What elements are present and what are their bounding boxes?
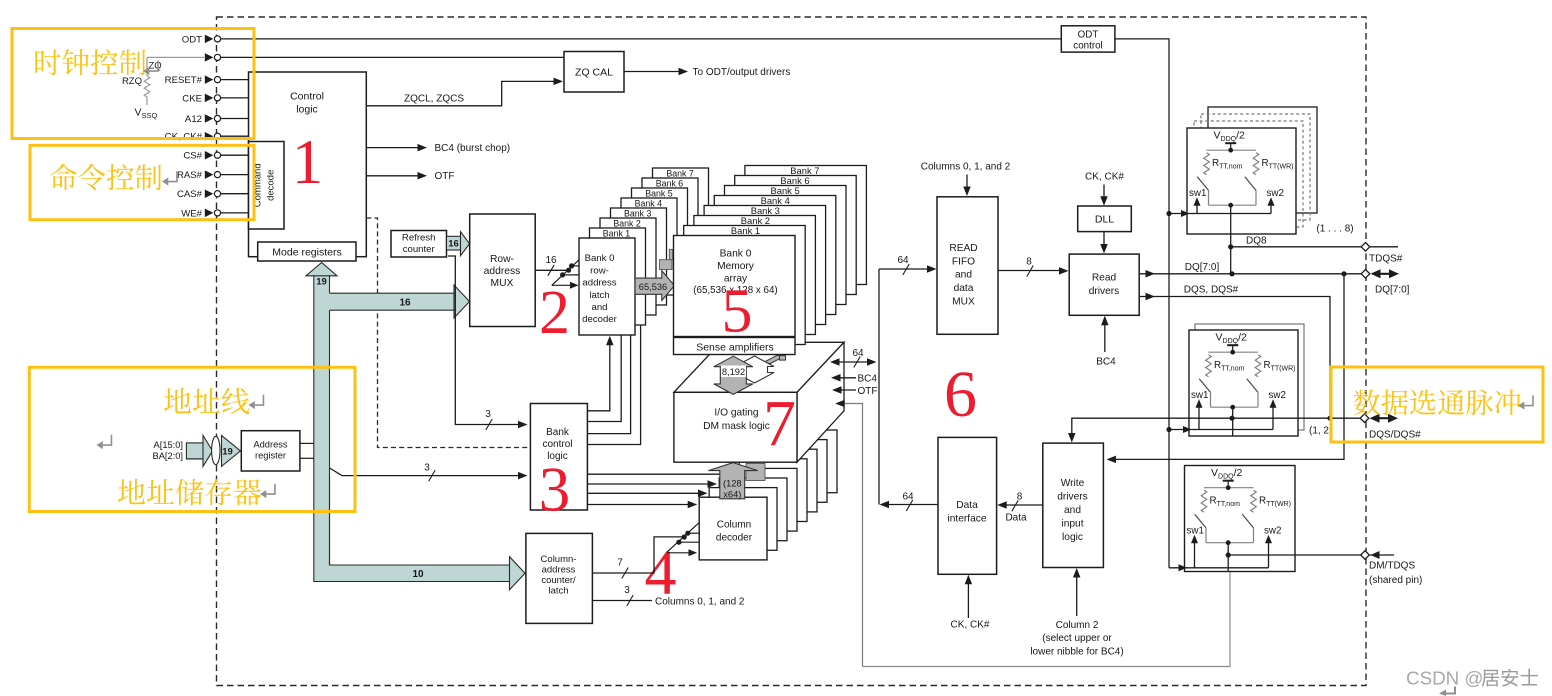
- pin DQS/DQS# (bidirectional): [1360, 414, 1421, 441]
- svg-text:ZQ CAL: ZQ CAL: [575, 67, 613, 79]
- svg-text:64: 64: [852, 348, 864, 359]
- svg-text:RESET#: RESET#: [165, 75, 203, 86]
- svg-text:WE#: WE#: [181, 208, 202, 219]
- svg-text:Bank: Bank: [546, 427, 570, 438]
- svg-text:8: 8: [1026, 257, 1032, 268]
- svg-text:Data: Data: [956, 500, 978, 511]
- svg-text:Bank 0: Bank 0: [585, 253, 615, 264]
- termination network DQS stack (ghost): [1195, 324, 1329, 437]
- svg-text:Write: Write: [1061, 478, 1085, 489]
- svg-text:Mode registers: Mode registers: [272, 247, 341, 259]
- input pin WE#: [181, 208, 248, 219]
- svg-text:counter/: counter/: [541, 575, 576, 586]
- svg-text:CK, CK#: CK, CK#: [951, 620, 990, 631]
- svg-text:sw2: sw2: [1269, 390, 1286, 401]
- svg-text:CSDN @: CSDN @: [1406, 668, 1484, 689]
- svg-text:10: 10: [412, 569, 424, 580]
- address bus (teal): register to vertical bus: [300, 443, 314, 458]
- ZQ CAL block: [564, 52, 624, 93]
- svg-text:16: 16: [448, 239, 459, 250]
- svg-text:ODT: ODT: [1078, 29, 1099, 40]
- svg-text:READ: READ: [949, 243, 977, 254]
- svg-text:3: 3: [424, 463, 430, 474]
- label 7 (I/O gating, red): [763, 387, 796, 460]
- wire ZQCL, ZQCS (control logic to ZQ CAL): [366, 78, 563, 106]
- wire 64 (I/O gating to read/write data bus): [830, 348, 877, 368]
- svg-text:DQS/DQS#: DQS/DQS#: [1369, 430, 1421, 441]
- column-address counter/latch block: [526, 533, 593, 623]
- column decoder stack (banks 1-7): [709, 430, 837, 550]
- svg-text:BC4 (burst chop): BC4 (burst chop): [435, 143, 511, 154]
- wire DM/TDQS pin line: [1230, 554, 1362, 556]
- svg-text:FIFO: FIFO: [952, 256, 975, 267]
- wire DQ8 center tap: [1228, 234, 1233, 274]
- wire Columns 0, 1, and 2 into READ FIFO: [921, 162, 1011, 197]
- svg-text:sw2: sw2: [1264, 526, 1281, 537]
- svg-text:6: 6: [944, 358, 977, 431]
- control logic block U1: [249, 72, 367, 257]
- svg-text:5: 5: [722, 278, 753, 346]
- svg-text:(shared pin): (shared pin): [1369, 575, 1422, 586]
- svg-text:decoder: decoder: [716, 532, 753, 543]
- svg-text:sw1: sw1: [1189, 188, 1206, 199]
- termination network RTT cell (DM/TDQS): [1169, 466, 1295, 572]
- svg-text:ODT: ODT: [182, 34, 202, 45]
- wires bank select (bank control logic to column decoder stack): [587, 474, 719, 508]
- annotation box address (yellow): [29, 367, 355, 511]
- data interface block: [938, 437, 997, 574]
- write drivers and input logic block: [1043, 443, 1104, 567]
- vertical data bus 64: [878, 269, 880, 505]
- svg-text:BC4: BC4: [1096, 357, 1116, 368]
- wire DM mask (from DM/TDQS pin) into I/O gating: [835, 400, 862, 667]
- column address bus 10 (teal) to column-address counter: [314, 468, 525, 590]
- svg-text:counter: counter: [403, 244, 436, 255]
- svg-text:2: 2: [539, 279, 570, 347]
- svg-text:8,192: 8,192: [722, 367, 745, 377]
- wire 8 (READ FIFO to read drivers): [998, 257, 1069, 277]
- svg-text:19: 19: [222, 447, 233, 458]
- I/O gating DM mask logic block (3D): [674, 342, 844, 462]
- svg-text:7: 7: [763, 387, 796, 460]
- svg-text:Row-: Row-: [490, 254, 514, 265]
- wire Column 2 select into write drivers: [1030, 568, 1123, 657]
- read drivers block: [1069, 254, 1139, 315]
- READ FIFO and data MUX block: [937, 197, 998, 334]
- wire column address 7 with fan-out to column decoders: [592, 523, 699, 579]
- address register block: [241, 431, 300, 471]
- svg-text:latch: latch: [548, 585, 568, 596]
- svg-text:65,536: 65,536: [639, 282, 667, 292]
- refresh counter bus 16 (teal): [447, 232, 470, 256]
- pin DM/TDQS (input, shared pin): [1361, 551, 1423, 586]
- svg-text:3: 3: [624, 585, 630, 596]
- wire 64 into READ FIFO: [879, 255, 937, 275]
- svg-text:Column 2: Column 2: [1056, 620, 1099, 631]
- svg-text:16: 16: [399, 298, 411, 309]
- data bus 8,192 (sense amplifiers to I/O gating, gray): [714, 356, 753, 394]
- resistor RZQ to VSSQ (ZQ calibration network): [122, 57, 204, 120]
- svg-text:lower nibble for BC4): lower nibble for BC4): [1030, 646, 1123, 657]
- svg-text:Bank 1: Bank 1: [603, 228, 630, 238]
- svg-text:address: address: [582, 278, 616, 289]
- wire DQ8 to TDQS# pin: [1232, 236, 1398, 247]
- wires bank select (bank control logic to latch stack): [587, 306, 640, 445]
- annotation text 地址线 (address lines): [164, 388, 263, 415]
- input pin RAS#: [177, 170, 249, 181]
- svg-text:3: 3: [485, 409, 491, 420]
- input pin CAS#: [177, 189, 249, 200]
- svg-text:row-: row-: [590, 265, 609, 276]
- svg-text:Column-: Column-: [541, 554, 577, 565]
- svg-text:OTF: OTF: [858, 386, 878, 397]
- svg-text:A[15:0]: A[15:0]: [154, 440, 183, 450]
- svg-text:ZQ: ZQ: [149, 60, 162, 71]
- svg-text:decoder: decoder: [582, 314, 617, 325]
- wire DLL to read drivers: [1100, 232, 1108, 254]
- svg-text:19: 19: [316, 277, 327, 288]
- svg-text:1: 1: [292, 127, 324, 197]
- wire DQS, DQS# (read drivers to DQS pins): [1139, 285, 1332, 421]
- svg-text:x64): x64): [723, 489, 741, 499]
- svg-text:I/O gating: I/O gating: [714, 408, 759, 419]
- svg-text:logic: logic: [296, 104, 318, 116]
- svg-text:ZQCL, ZQCS: ZQCL, ZQCS: [404, 94, 464, 105]
- svg-text:Bank 2: Bank 2: [613, 218, 640, 228]
- svg-text:CS#: CS#: [183, 151, 202, 162]
- svg-text:DQ[7:0]: DQ[7:0]: [1185, 262, 1220, 273]
- svg-text:latch: latch: [589, 290, 609, 301]
- address input bus arrow (teal, 19 bits): [186, 435, 240, 466]
- bank memory array stack (banks 1-7): [684, 165, 867, 345]
- svg-text:address: address: [542, 564, 576, 575]
- svg-text:(1 . . . 8): (1 . . . 8): [1316, 224, 1353, 235]
- wire DQ branch to write drivers: [1107, 274, 1345, 463]
- svg-text:Bank 7: Bank 7: [666, 168, 693, 178]
- label 2 (row-address MUX, red): [539, 279, 570, 347]
- svg-text:Bank 6: Bank 6: [656, 178, 683, 188]
- svg-text:DM/TDQS: DM/TDQS: [1369, 561, 1415, 572]
- svg-text:Bank 3: Bank 3: [624, 208, 651, 218]
- row-address MUX block: [470, 214, 536, 327]
- wire BC4 into read drivers: [1096, 316, 1116, 368]
- svg-text:drivers: drivers: [1057, 491, 1088, 502]
- wire ZQ CAL output to ODT/output drivers: [624, 67, 790, 78]
- svg-text:(1, 2: (1, 2: [1309, 426, 1329, 437]
- label 1 (control logic, red): [292, 127, 324, 197]
- svg-text:logic: logic: [1062, 532, 1083, 543]
- svg-text:Sense amplifiers: Sense amplifiers: [696, 342, 774, 354]
- svg-text:DM mask logic: DM mask logic: [703, 421, 770, 432]
- input pin CK, CK#: [165, 132, 249, 143]
- output OTF: [366, 171, 454, 182]
- svg-text:DQ[7:0]: DQ[7:0]: [1375, 285, 1410, 296]
- svg-text:Columns 0, 1, and 2: Columns 0, 1, and 2: [921, 162, 1011, 173]
- annotation box data strobe (yellow): [1331, 367, 1543, 442]
- ODT control block: [1061, 26, 1115, 52]
- svg-text:Control: Control: [290, 91, 324, 103]
- dashed control path (control logic to bank control logic): [366, 218, 528, 448]
- input pin RESET#: [165, 75, 249, 86]
- row bus 65,536 (latch to memory array, gray): [635, 249, 674, 300]
- bank row-address latch stack (banks 1-7): [590, 168, 709, 325]
- output BC4 (burst chop): [366, 143, 510, 154]
- svg-text:input: input: [1061, 518, 1083, 529]
- wire 3 (row path to bank control logic): [448, 256, 528, 430]
- svg-text:MUX: MUX: [952, 297, 975, 308]
- wire DQS center tap: [1232, 418, 1234, 430]
- column decoder block (bank 0): [699, 497, 767, 560]
- command decode block: [249, 142, 285, 230]
- svg-text:BA[2:0]: BA[2:0]: [153, 451, 184, 461]
- svg-text:Memory: Memory: [717, 261, 755, 272]
- annotation text 数据选通脉冲 (data strobe): [1354, 389, 1533, 415]
- termination network DQ8 stack (dashed ghosts): [1194, 107, 1354, 235]
- svg-text:Bank 0: Bank 0: [720, 249, 752, 260]
- svg-text:RZQ: RZQ: [122, 76, 142, 87]
- wire DQS/DQS# pin line to write drivers input: [1068, 416, 1361, 443]
- svg-text:and: and: [955, 270, 972, 281]
- svg-text:sw1: sw1: [1191, 390, 1208, 401]
- wire ODT control to termination networks: [1115, 39, 1172, 568]
- svg-text:decode: decode: [266, 170, 277, 201]
- input pin CS#: [183, 151, 248, 162]
- column bus 128x64 (column decoder to I/O gating, gray): [708, 463, 765, 500]
- svg-text:DLL: DLL: [1095, 214, 1114, 226]
- DDR3 SDRAM chip boundary (dashed border): [217, 17, 1367, 686]
- annotation box clock control (yellow): [12, 29, 254, 139]
- label 3 (bank control logic, red): [539, 455, 571, 525]
- svg-text:drivers: drivers: [1089, 286, 1120, 297]
- svg-text:and: and: [1064, 505, 1081, 516]
- input pin ODT: [182, 34, 1061, 45]
- annotation text 时钟控制 (clock control): [35, 49, 158, 75]
- wire DQ[7:0] (read drivers to DQ pins): [1139, 262, 1361, 278]
- wire DM center tap: [1226, 552, 1231, 567]
- wire CK, CK# into data interface: [951, 575, 990, 631]
- svg-text:Address: Address: [253, 440, 287, 450]
- svg-text:RAS#: RAS#: [177, 170, 203, 181]
- svg-text:DQS, DQS#: DQS, DQS#: [1184, 285, 1239, 296]
- svg-text:64: 64: [897, 255, 909, 266]
- row address bus 16 (teal) to row-address MUX: [329, 285, 470, 318]
- bank control logic block: [530, 404, 587, 511]
- svg-text:Refresh: Refresh: [402, 233, 436, 244]
- svg-text:control: control: [1073, 40, 1102, 51]
- input pin CKE: [182, 93, 248, 104]
- svg-text:CKE: CKE: [182, 93, 202, 104]
- svg-text:(select upper or: (select upper or: [1042, 633, 1112, 644]
- refresh counter block: [391, 231, 447, 258]
- svg-text:Data: Data: [1005, 513, 1027, 524]
- svg-text:16: 16: [545, 255, 557, 266]
- DLL block: [1078, 206, 1132, 232]
- input pin ZQ (to ZQ CAL): [205, 53, 564, 62]
- svg-text:sw1: sw1: [1187, 526, 1204, 537]
- wire bank address 3 (address register to bank control logic): [330, 463, 528, 482]
- svg-text:Column: Column: [717, 519, 751, 530]
- svg-text:MUX: MUX: [491, 278, 514, 289]
- input pin A12: [185, 114, 249, 125]
- annotation text 命令控制 (command control): [50, 164, 177, 190]
- sense amplifiers block: [674, 338, 796, 355]
- annotation text 地址储存器 (address register): [118, 479, 275, 506]
- svg-text:BC4: BC4: [858, 374, 878, 385]
- svg-text:Read: Read: [1092, 272, 1117, 283]
- bank 0 memory array block: [674, 236, 796, 337]
- svg-text:address: address: [484, 266, 521, 277]
- svg-text:interface: interface: [947, 514, 986, 525]
- svg-text:TDQS#: TDQS#: [1369, 254, 1403, 265]
- wire OTF into I/O gating: [832, 386, 878, 397]
- svg-text:Bank 1: Bank 1: [731, 225, 760, 236]
- pin TDQS#: [1361, 243, 1403, 265]
- svg-text:Columns 0, 1, and 2: Columns 0, 1, and 2: [655, 596, 745, 607]
- svg-text:3: 3: [539, 455, 571, 525]
- svg-text:(128: (128: [723, 478, 742, 488]
- wire DM mask bottom run (gray): [863, 557, 1231, 667]
- annotation return mark (standalone): [97, 435, 112, 449]
- svg-text:DQ8: DQ8: [1246, 236, 1267, 247]
- wire column select 3 (Columns 0, 1, and 2): [592, 585, 745, 607]
- svg-text:control: control: [542, 439, 572, 450]
- wire 8 Data (write drivers to data interface): [997, 492, 1043, 524]
- svg-text:register: register: [255, 451, 286, 461]
- wire 64 from data interface: [880, 492, 939, 512]
- svg-text:Bank 5: Bank 5: [645, 188, 672, 198]
- svg-text:CAS#: CAS#: [177, 189, 203, 200]
- termination network RTT cell (DQS): [1169, 330, 1298, 436]
- wire CK, CK# into DLL: [1085, 172, 1124, 206]
- wire BC4 into I/O gating: [831, 374, 877, 385]
- svg-text:and: and: [591, 302, 607, 313]
- wire row address 16 with bank fan-out: [535, 255, 579, 289]
- annotation box command control (yellow): [30, 145, 254, 219]
- svg-text:data: data: [954, 283, 974, 294]
- data bus 8,192 ghost arrow bank1 (white): [735, 356, 774, 383]
- pin DQ[7:0] (bidirectional): [1361, 269, 1409, 295]
- bank 0 row-address latch and decoder block: [579, 238, 635, 335]
- watermark CSDN @居安士: [1406, 668, 1538, 696]
- termination network RTT cell (DQ8): [1169, 128, 1296, 234]
- label 4 (column path, red): [645, 536, 677, 607]
- svg-text:To ODT/output drivers: To ODT/output drivers: [693, 67, 791, 78]
- svg-text:sw2: sw2: [1267, 188, 1284, 199]
- vertical address bus (teal): [306, 263, 337, 581]
- svg-text:A12: A12: [185, 114, 202, 125]
- label 6 (data path, red): [944, 358, 977, 431]
- svg-text:7: 7: [617, 558, 623, 569]
- mode registers block: [258, 242, 356, 261]
- svg-text:OTF: OTF: [435, 171, 455, 182]
- data bus 8,192 ghost arrow bank2 (gray): [762, 356, 786, 364]
- label 5 (memory array, red): [722, 278, 753, 346]
- input bus A[15:0], BA[2:0]: [153, 440, 204, 461]
- svg-text:CK, CK#: CK, CK#: [1085, 172, 1124, 183]
- svg-text:Bank 4: Bank 4: [635, 198, 662, 208]
